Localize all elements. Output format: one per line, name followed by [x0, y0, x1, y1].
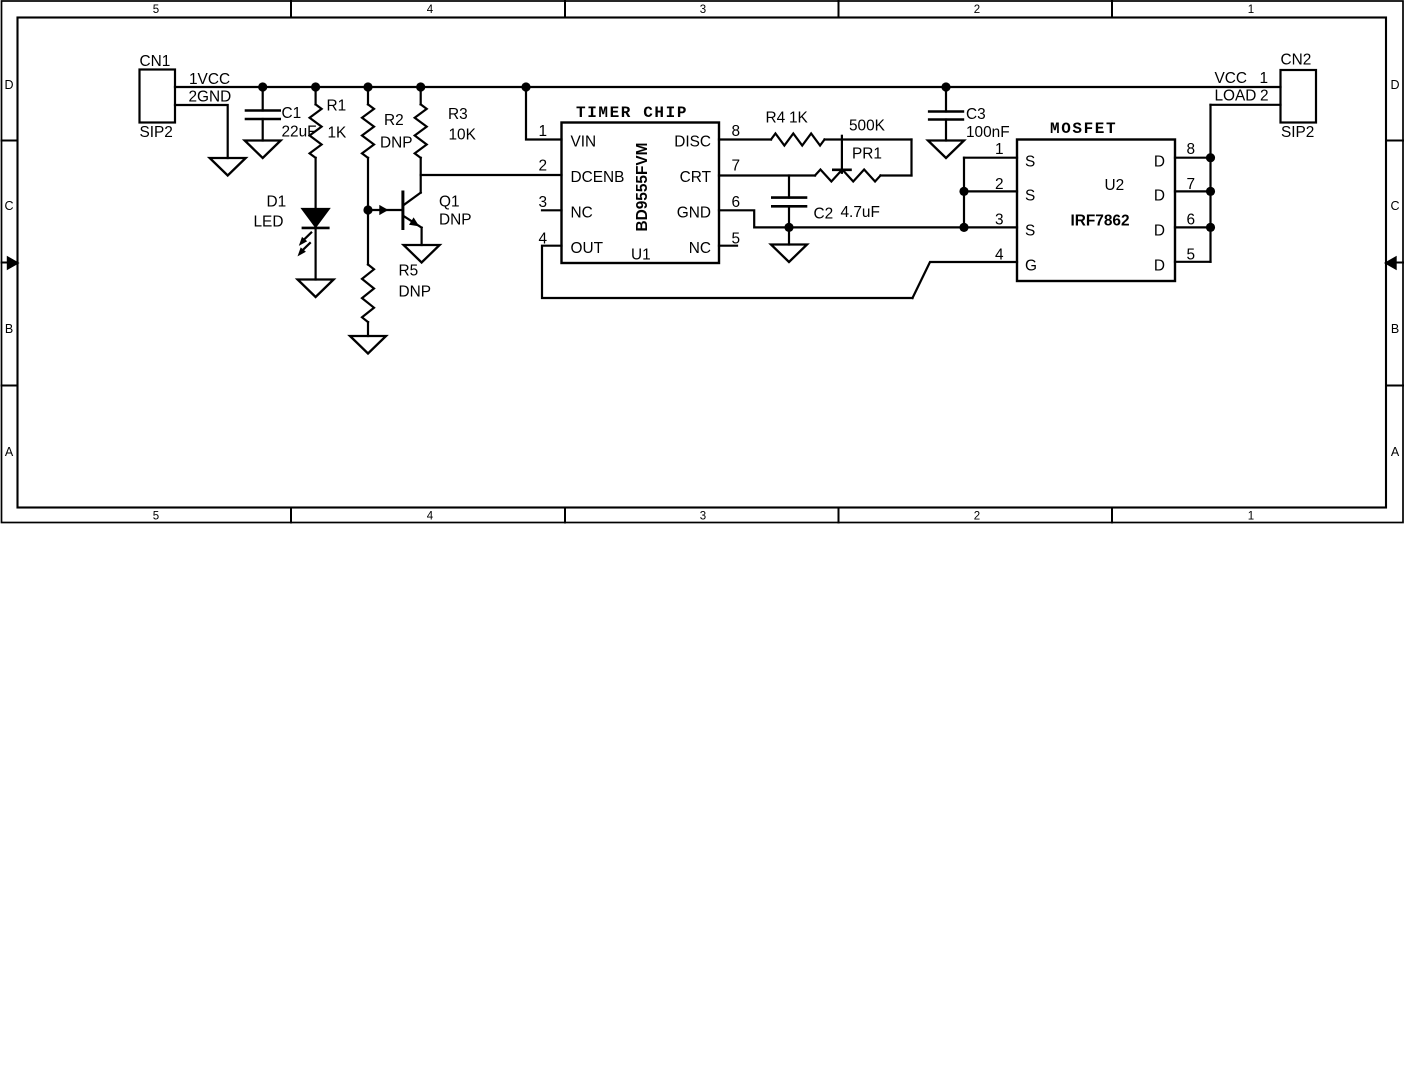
- resistor R5: [362, 265, 374, 337]
- svg-text:R2: R2: [384, 112, 404, 129]
- svg-text:NC: NC: [689, 240, 711, 257]
- svg-text:D: D: [1154, 188, 1165, 205]
- mosfet U2 box: [1017, 140, 1175, 282]
- node junction D7: [1206, 187, 1215, 196]
- left row labels: [4, 78, 13, 459]
- bottom column labels: [153, 511, 1254, 523]
- svg-text:2GND: 2GND: [189, 89, 232, 106]
- node junction R3/rail: [416, 82, 425, 91]
- capacitor C2: [772, 176, 806, 228]
- svg-text:4: 4: [427, 4, 434, 16]
- node junction C3/rail: [941, 82, 950, 91]
- svg-text:BD9555FVM: BD9555FVM: [634, 143, 651, 232]
- top column labels: [153, 4, 1254, 16]
- wire VCC rail: [175, 86, 1281, 88]
- wire CN1 pin2 to ground: [175, 105, 228, 158]
- svg-text:1VCC: 1VCC: [189, 71, 230, 88]
- svg-text:2: 2: [995, 176, 1004, 193]
- svg-text:D1: D1: [267, 194, 287, 211]
- sheet inner border: [18, 18, 1387, 508]
- svg-text:2: 2: [974, 4, 980, 16]
- svg-text:MOSFET: MOSFET: [1050, 120, 1117, 138]
- svg-text:R4: R4: [766, 110, 786, 127]
- svg-text:5: 5: [153, 4, 159, 16]
- svg-text:100nF: 100nF: [966, 124, 1010, 141]
- sheet outer border: [2, 1, 1404, 523]
- svg-text:D: D: [1390, 78, 1399, 92]
- svg-text:DNP: DNP: [439, 212, 472, 229]
- svg-text:1K: 1K: [328, 125, 348, 142]
- svg-text:VCC: VCC: [1215, 70, 1248, 87]
- node junction S2: [959, 187, 968, 196]
- svg-text:R1: R1: [327, 98, 347, 115]
- node junction D8: [1206, 153, 1215, 162]
- pin 4 OUT wire: [542, 246, 913, 298]
- svg-text:2: 2: [1260, 88, 1269, 105]
- pin 1 VIN wire: [526, 87, 562, 140]
- ground R5: [350, 336, 386, 354]
- svg-text:A: A: [5, 445, 14, 459]
- potentiometer PR1: [815, 136, 912, 182]
- pin 6 GND wire: [719, 210, 1017, 227]
- connector CN2: [1281, 70, 1317, 123]
- svg-text:CN2: CN2: [1281, 52, 1312, 69]
- pin 7 CRT stub: [719, 174, 815, 176]
- svg-text:C: C: [1390, 199, 1399, 213]
- svg-text:VIN: VIN: [571, 134, 597, 151]
- svg-text:D: D: [1154, 154, 1165, 171]
- svg-text:CN1: CN1: [140, 53, 171, 70]
- svg-text:2: 2: [974, 511, 980, 523]
- svg-text:B: B: [5, 322, 13, 336]
- svg-text:C2: C2: [814, 206, 834, 223]
- svg-text:4.7uF: 4.7uF: [841, 204, 880, 221]
- resistor R2: [362, 87, 374, 265]
- svg-text:D: D: [4, 78, 13, 92]
- svg-text:2: 2: [538, 158, 547, 175]
- svg-text:S: S: [1025, 154, 1035, 171]
- svg-text:CRT: CRT: [680, 169, 712, 186]
- resistor R3: [415, 87, 427, 193]
- svg-text:5: 5: [732, 231, 741, 248]
- capacitor C3: [929, 87, 963, 141]
- right centre arrow: [1386, 258, 1403, 269]
- svg-text:4: 4: [995, 247, 1004, 264]
- wire DCENB net: [421, 174, 562, 176]
- pin 6 D stub: [1175, 226, 1211, 228]
- pin 8 DISC stub: [719, 138, 771, 140]
- wire drain tie vertical: [1209, 105, 1211, 262]
- node junction base/R2: [363, 205, 372, 214]
- node junction C1/rail: [258, 82, 267, 91]
- svg-text:DISC: DISC: [674, 134, 711, 151]
- capacitor C1: [246, 87, 280, 141]
- ground D1: [298, 280, 334, 298]
- svg-text:3: 3: [700, 511, 706, 523]
- svg-text:1: 1: [1248, 511, 1254, 523]
- svg-text:G: G: [1025, 258, 1037, 275]
- svg-text:B: B: [1391, 322, 1399, 336]
- svg-text:GND: GND: [677, 205, 711, 222]
- right row tick marks: [1386, 141, 1403, 386]
- svg-text:1: 1: [1248, 4, 1254, 16]
- svg-text:4: 4: [427, 511, 434, 523]
- pin 5 NC stub: [719, 245, 737, 247]
- resistor R4: [771, 134, 912, 146]
- svg-text:A: A: [1391, 445, 1400, 459]
- svg-text:TIMER CHIP: TIMER CHIP: [576, 104, 688, 122]
- svg-text:S: S: [1025, 223, 1035, 240]
- pin 7 D stub: [1175, 190, 1211, 192]
- svg-text:S: S: [1025, 188, 1035, 205]
- svg-text:LOAD: LOAD: [1215, 88, 1257, 105]
- svg-text:22uF: 22uF: [282, 124, 317, 141]
- LED D1: [298, 209, 329, 280]
- top column tick marks: [291, 1, 1112, 18]
- left row tick marks: [2, 141, 18, 386]
- transistor Q1: [368, 192, 422, 245]
- svg-text:6: 6: [1187, 211, 1196, 228]
- wire source tie vertical: [963, 158, 965, 228]
- svg-text:10K: 10K: [449, 127, 477, 144]
- node junction R2/rail: [363, 82, 372, 91]
- svg-text:8: 8: [1187, 141, 1196, 158]
- svg-text:1: 1: [538, 123, 547, 140]
- ground C3: [928, 141, 964, 159]
- node junction R1/rail: [311, 82, 320, 91]
- svg-text:5: 5: [153, 511, 159, 523]
- svg-text:R5: R5: [399, 263, 419, 280]
- pin 2 S stub: [964, 190, 1017, 192]
- svg-text:SIP2: SIP2: [140, 124, 173, 141]
- svg-text:8: 8: [732, 123, 741, 140]
- left centre arrow: [2, 258, 18, 269]
- svg-text:7: 7: [732, 158, 741, 175]
- svg-text:5: 5: [1187, 247, 1196, 264]
- ground CN1: [210, 158, 246, 176]
- svg-text:DNP: DNP: [380, 135, 413, 152]
- svg-text:C: C: [4, 199, 13, 213]
- svg-text:PR1: PR1: [852, 146, 882, 163]
- pin 3 NC stub: [542, 209, 562, 211]
- svg-text:NC: NC: [571, 205, 593, 222]
- svg-text:3: 3: [700, 4, 706, 16]
- svg-text:3: 3: [995, 211, 1004, 228]
- resistor R1: [310, 87, 322, 209]
- svg-text:1: 1: [995, 141, 1004, 158]
- connector CN1: [140, 70, 176, 123]
- svg-text:DCENB: DCENB: [571, 169, 625, 186]
- node junction C2/GND net: [784, 223, 793, 232]
- wire OUT diagonal: [913, 262, 1018, 298]
- svg-text:OUT: OUT: [571, 240, 604, 257]
- ground Q1: [404, 245, 440, 263]
- bottom column tick marks: [291, 508, 1112, 523]
- svg-text:D: D: [1154, 258, 1165, 275]
- node junction S3: [959, 223, 968, 232]
- svg-text:U1: U1: [631, 247, 651, 264]
- svg-text:1: 1: [1260, 70, 1269, 87]
- pin 1 S stub: [964, 157, 1017, 159]
- svg-text:Q1: Q1: [439, 194, 460, 211]
- wire C2 to ground: [788, 227, 790, 244]
- svg-text:7: 7: [1187, 176, 1196, 193]
- node junction D6: [1206, 223, 1215, 232]
- timer chip U1 box: [562, 123, 720, 264]
- svg-text:6: 6: [732, 194, 741, 211]
- svg-text:C3: C3: [966, 106, 986, 123]
- wire LOAD net: [1211, 104, 1281, 106]
- svg-text:C1: C1: [282, 105, 302, 122]
- node junction VIN/rail: [521, 82, 530, 91]
- svg-text:DNP: DNP: [399, 284, 432, 301]
- svg-text:4: 4: [538, 231, 547, 248]
- ground C2: [771, 245, 807, 263]
- ground C1: [245, 141, 281, 159]
- svg-text:3: 3: [538, 194, 547, 211]
- svg-text:500K: 500K: [849, 118, 886, 135]
- svg-text:IRF7862: IRF7862: [1071, 213, 1130, 230]
- right row labels: [1390, 78, 1399, 459]
- svg-text:R3: R3: [448, 106, 468, 123]
- pin 8 D stub: [1175, 157, 1211, 159]
- svg-text:U2: U2: [1105, 177, 1125, 194]
- svg-text:1K: 1K: [789, 110, 809, 127]
- svg-text:D: D: [1154, 223, 1165, 240]
- svg-text:SIP2: SIP2: [1281, 124, 1314, 141]
- pin 5 D stub: [1175, 261, 1211, 263]
- svg-text:LED: LED: [254, 214, 284, 231]
